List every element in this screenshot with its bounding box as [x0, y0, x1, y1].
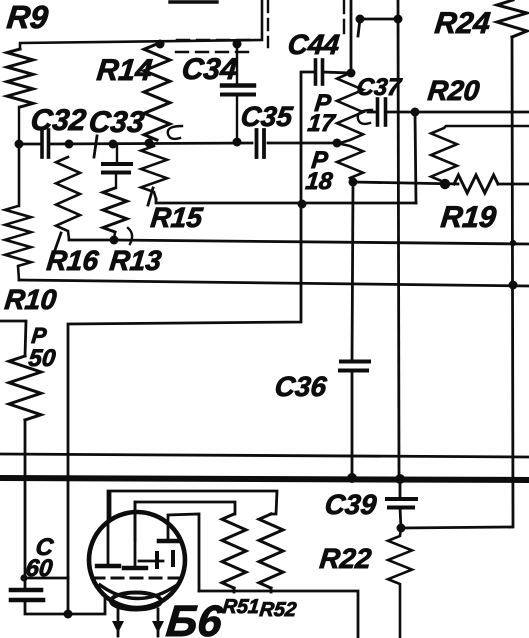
junction [394, 15, 403, 24]
shield dashed vertical x268 [267, 1, 269, 47]
svg-text:R15: R15 [149, 202, 204, 233]
bus thick [0, 478, 529, 480]
heater pin left [117, 609, 120, 636]
junction [440, 179, 450, 189]
svg-text:C35: C35 [239, 101, 294, 132]
leader R15 [148, 188, 153, 205]
wire A x398 [398, 0, 399, 478]
tube mid stem [134, 502, 137, 566]
wire top horizontal [20, 0, 262, 49]
resistor R51 [222, 514, 246, 588]
resistor R22 [388, 528, 412, 638]
tube anode bar [159, 539, 178, 544]
svg-text:R19: R19 [439, 201, 498, 234]
junction [109, 140, 118, 149]
tube left electrode [97, 564, 119, 568]
junction [397, 524, 406, 533]
svg-text:18: 18 [304, 168, 334, 195]
tube B6 envelope [89, 512, 185, 608]
resistor R24 [497, 0, 527, 37]
wire C39 top [399, 478, 402, 498]
junction [347, 473, 357, 483]
tube grid bar2 [171, 552, 175, 565]
junction [110, 236, 119, 245]
junction [65, 140, 74, 149]
tube base arc [100, 585, 177, 599]
wire y183 [353, 182, 458, 184]
wire y591 [199, 591, 358, 638]
wire R19 right [498, 183, 529, 186]
resistor R9 [7, 49, 33, 107]
wire y322 [0, 321, 26, 356]
tube mid electrode [124, 566, 146, 570]
tube grid tick [139, 560, 163, 563]
junction [395, 474, 405, 484]
svg-text:R10: R10 [3, 284, 58, 315]
resistor R17 [337, 73, 363, 143]
wire C37 left [368, 111, 377, 114]
wire R50 down [24, 420, 27, 589]
wire B vertical [415, 112, 416, 203]
resistor R19 [454, 175, 498, 193]
capacitor C35 [255, 130, 259, 157]
junction [145, 139, 154, 148]
capacitor C34 [222, 83, 254, 87]
junction [233, 40, 242, 49]
wire [18, 107, 20, 140]
capacitor C33 [103, 162, 131, 166]
svg-text:C44: C44 [286, 29, 341, 60]
junction [356, 15, 365, 24]
resistor R13 [103, 188, 127, 232]
svg-text:C36: C36 [273, 371, 328, 402]
junction [156, 40, 165, 49]
anode stem [168, 514, 199, 591]
svg-text:R14: R14 [95, 54, 154, 87]
svg-text:R52: R52 [258, 599, 297, 621]
heater pin right [157, 609, 160, 636]
wire x301-y323-x68 [68, 204, 301, 614]
wire C60 bottom [25, 597, 105, 614]
junction [510, 240, 516, 246]
shield dashed horizontal y36 [177, 39, 252, 41]
leader R16 [55, 233, 61, 250]
capacitor C60 [11, 588, 41, 593]
svg-text:17: 17 [306, 110, 337, 137]
wire y143 [19, 143, 41, 146]
svg-text:R20: R20 [426, 75, 481, 106]
svg-text:60: 60 [24, 555, 54, 582]
svg-text:C34: C34 [180, 53, 239, 86]
wire y453 [0, 454, 529, 457]
svg-text:R22: R22 [318, 543, 373, 574]
resistor R15 [141, 146, 167, 199]
wire inner y502 [135, 502, 235, 540]
tube dashed cathode line [93, 577, 182, 580]
shield top tick [170, 0, 217, 3]
junction [509, 281, 518, 290]
wire R51 lead [233, 588, 236, 592]
heater arrow right [152, 621, 164, 633]
wire x351 up [350, 0, 353, 73]
junction [15, 140, 24, 149]
resistor R52 [259, 514, 283, 588]
wire x512 [401, 37, 513, 528]
tap curl R17 [358, 110, 372, 124]
svg-text:C33: C33 [87, 106, 146, 139]
leader C33 [94, 136, 97, 157]
resistor R10 [5, 144, 31, 280]
capacitor C44 [314, 60, 318, 84]
wire C44 right [323, 72, 351, 73]
svg-text:C32: C32 [29, 104, 88, 137]
wire y281 [19, 280, 529, 286]
svg-text:50: 50 [27, 345, 57, 372]
junction [20, 574, 27, 581]
wire y242 [114, 240, 529, 244]
stub [358, 19, 360, 36]
wire C44 left [301, 72, 315, 204]
junction [349, 178, 358, 187]
wire R52 lead [270, 588, 273, 592]
svg-text:C37: C37 [355, 74, 403, 101]
resistor R18 [337, 143, 363, 182]
wire [114, 232, 115, 240]
resistor R14 [144, 44, 170, 140]
wire [236, 95, 238, 140]
shield dashed horizontal y51 [176, 51, 248, 53]
capacitor C36 [341, 360, 369, 364]
wire plate loop outer y491 [110, 491, 277, 520]
resistor R20 [431, 126, 529, 184]
wire [116, 144, 118, 164]
resistor R16 [56, 157, 80, 239]
junction [411, 108, 420, 117]
svg-text:R16: R16 [45, 245, 100, 276]
leader R13 [128, 228, 132, 244]
capacitor C39 [387, 497, 416, 501]
wire C36 top [352, 182, 353, 361]
wire y202 [156, 199, 416, 203]
resistor R50 [9, 356, 41, 420]
svg-text:R24: R24 [433, 7, 492, 40]
svg-text:Б6: Б6 [164, 597, 225, 638]
junction [298, 200, 307, 209]
junction [333, 139, 342, 148]
junction [347, 69, 356, 78]
svg-text:R13: R13 [108, 245, 163, 276]
junction [233, 138, 242, 147]
shield dashed vertical x344 [343, 0, 345, 38]
wire C36 bottom [351, 371, 354, 478]
capacitor C32 [40, 130, 44, 157]
svg-text:C39: C39 [323, 489, 378, 520]
wire R16 bottom [69, 239, 113, 242]
tube heater ellipse [111, 593, 161, 610]
tube left stem [107, 491, 110, 564]
wire [115, 173, 117, 188]
wire C37 right [386, 111, 529, 114]
wire C39 bottom [400, 508, 401, 528]
heater arrow left [112, 621, 124, 633]
junction [64, 610, 73, 619]
wire [236, 44, 238, 84]
tap curl R15 [168, 126, 182, 139]
capacitor C37 [376, 99, 380, 125]
svg-text:R51: R51 [221, 596, 260, 618]
wire y19 [360, 18, 398, 21]
wire y578 tee [24, 577, 68, 580]
tube grid bar1 [155, 553, 159, 567]
svg-text:R9: R9 [5, 0, 50, 35]
